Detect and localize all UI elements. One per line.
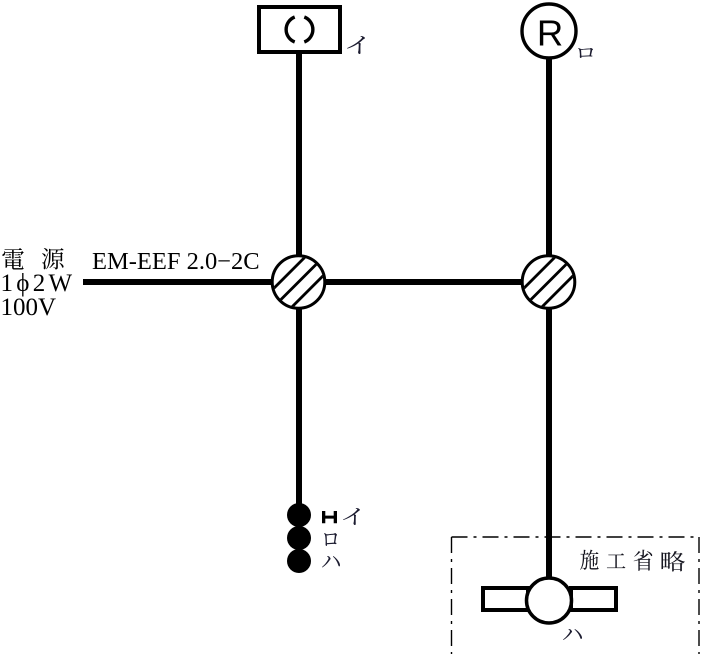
svg-text:100V: 100V [1,294,57,321]
label ハ for fluorescent light [563,629,582,640]
switch ハ [287,549,311,573]
ceiling rosette box (light fixture イ) [259,7,340,52]
left arc of ( ) symbol [286,17,295,42]
fluorescent light left box [483,588,528,610]
text 施工省略 [580,550,598,570]
fluorescent light right box [571,588,616,610]
switch ロ [287,526,311,550]
lamp receptacle R (ロ) circle [522,4,576,58]
wire between left and right junction boxes [320,279,528,285]
svg-text:1ϕ2W: 1ϕ2W [1,270,76,297]
svg-text:R: R [537,13,563,54]
switch イ (with pilot H) [287,503,311,527]
switch marking H [322,511,337,523]
power source label 電源 [2,248,24,270]
label ロ for switch [324,533,337,546]
dashed boundary 施工省略 area [452,537,700,654]
wire from ceiling-light box to left junction box [296,50,302,260]
wire from left junction box down to switches [296,304,302,506]
label イ for switch [343,508,360,525]
fluorescent light circle [527,578,572,623]
left VVF junction box [259,243,337,321]
label ハ for switch [322,556,340,567]
right VVF junction box [509,243,587,321]
wire from right junction box down to fluorescent light [546,304,552,580]
wire from power source to left junction box [83,279,278,285]
wire from lamp receptacle R to right junction box [546,56,552,260]
right arc of ( ) symbol [304,17,313,42]
svg-text:EM-EEF 2.0−2C: EM-EEF 2.0−2C [92,248,260,275]
label イ for ceiling light [347,36,365,54]
label ロ for receptacle [578,48,593,58]
